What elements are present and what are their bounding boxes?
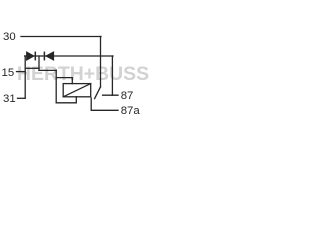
svg-text:31: 31: [3, 93, 16, 105]
svg-text:15: 15: [2, 67, 15, 79]
svg-text:HERTH+BUSS: HERTH+BUSS: [17, 64, 149, 85]
svg-text:30: 30: [3, 31, 16, 43]
svg-text:87a: 87a: [121, 105, 141, 117]
svg-text:87: 87: [121, 90, 134, 102]
